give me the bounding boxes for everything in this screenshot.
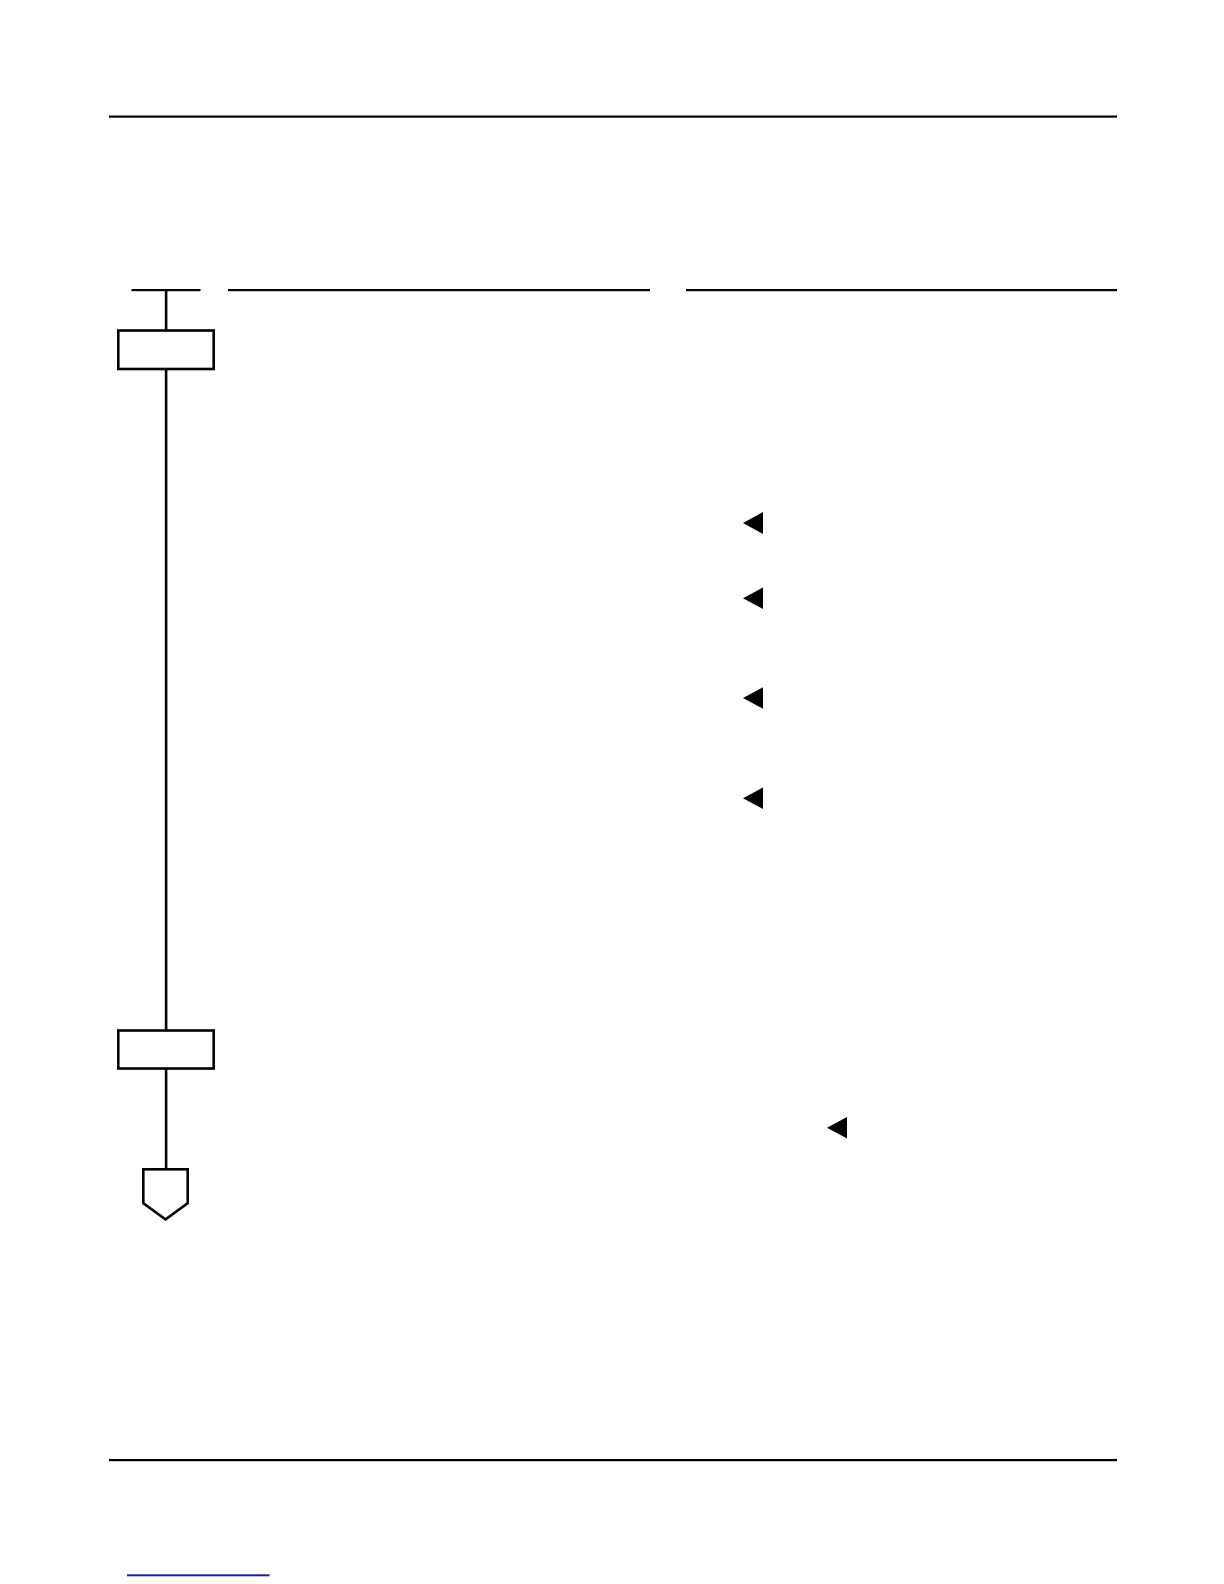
bottom footer rule: [109, 1459, 1117, 1461]
pointer triangle 2: [743, 588, 763, 610]
off-page connector pentagon: [143, 1169, 187, 1219]
pointer triangle 3: [743, 687, 763, 709]
top header rule: [109, 116, 1117, 118]
wire: spine segment A: [165, 289, 168, 331]
column header line middle: [228, 289, 650, 291]
column header line right: [686, 289, 1117, 291]
blue hyperlink underline: [127, 1574, 270, 1576]
process box 2: [118, 1031, 213, 1069]
column header line left short (over flow spine): [132, 289, 201, 291]
wire: spine segment C: [165, 1068, 168, 1169]
process box 1: [118, 331, 213, 370]
wire: spine segment B: [165, 369, 168, 1031]
pointer triangle 5: [827, 1117, 847, 1139]
pointer triangle 1: [743, 512, 763, 534]
pointer triangle 4: [743, 788, 763, 810]
